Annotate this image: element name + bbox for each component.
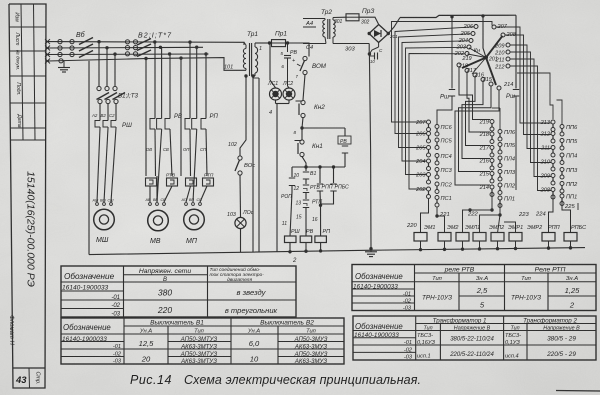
wire Tr2 secondary to fuse Pr3 (301)	[333, 17, 346, 25]
junction node 8	[293, 126, 303, 135]
table 4 grid (трансформаторы)	[353, 316, 596, 360]
table 1 grid (напряжение сети)	[61, 266, 296, 317]
switch Kn contact 207	[492, 24, 508, 30]
contact PS-switch 203	[415, 173, 430, 185]
wires fan to PS-switch contacts (left bundle)	[392, 22, 493, 190]
label node 16	[312, 217, 318, 223]
contact PS-switch 205	[415, 146, 430, 158]
wire 225	[564, 203, 578, 210]
contact selector 216	[479, 159, 494, 171]
wire lighting feeder (102 chain)	[240, 76, 246, 156]
rectifier RV cell (5-6)	[280, 43, 297, 86]
strip label № докум.	[16, 50, 21, 70]
wire bus to fan common	[452, 16, 486, 58]
switch Kn contact 215	[482, 77, 493, 86]
contact selector 211	[540, 146, 555, 158]
switch Kn common node 201	[474, 48, 498, 63]
wire rect to lamp LS2	[288, 86, 290, 88]
wires RV contacts down	[155, 130, 172, 202]
table 3 designation rows	[353, 284, 412, 312]
table 3 header Обозначение	[355, 272, 403, 281]
switch Kn contact 209	[494, 43, 510, 50]
label node 11	[282, 221, 287, 227]
label 302	[361, 20, 370, 26]
contact ПС2	[435, 182, 453, 194]
transformer Tr2 label	[321, 9, 332, 16]
signal lamp LS2	[283, 88, 295, 100]
contact 13/RTP	[295, 200, 322, 237]
motor MSh terminals	[92, 199, 115, 206]
wires RP contacts down	[190, 130, 207, 202]
wire Kn1 to ladder top	[302, 157, 306, 167]
switch B2 blades	[137, 39, 151, 57]
fuse Pr1	[272, 31, 288, 47]
strip cell divider rows	[9, 27, 46, 388]
contact 10/B1	[293, 167, 316, 184]
table 1 value 380	[158, 288, 172, 298]
wire MV feeder 4	[169, 54, 171, 117]
table 4 voltage 2	[546, 336, 576, 359]
switch Kn contact 208	[501, 32, 517, 38]
contact ROP (RSh rung)	[281, 178, 295, 236]
transformer Tr1 core	[250, 43, 252, 76]
strip margin label Формат 11	[8, 315, 14, 345]
table 4 type 1	[417, 333, 436, 360]
ladder top rail	[292, 165, 345, 177]
caption Рис.14	[130, 373, 172, 387]
connector contacts phase B	[58, 46, 74, 50]
table 3 header реле РТВ	[444, 267, 475, 274]
relay coil RP	[315, 236, 327, 243]
wire MP feeder 4	[205, 54, 207, 117]
wire 220	[406, 199, 429, 233]
wire MP feeder 2	[189, 42, 191, 117]
transformer Tr1 secondary winding	[255, 43, 258, 76]
contact ПП2	[560, 182, 578, 194]
table 2 header Выключатель В1	[150, 320, 204, 327]
table 3 value 2	[569, 301, 575, 310]
label node 101	[224, 65, 233, 71]
wire A4 stub	[303, 18, 325, 20]
switch Kn contact 218	[458, 64, 469, 73]
table 3 value 5	[480, 301, 485, 310]
table 3 subheaders	[432, 276, 578, 282]
table 3 value 2,5	[476, 286, 488, 295]
contact ПС6	[435, 125, 453, 137]
switch Kn contact 219	[457, 56, 472, 67]
relay/solenoid coil ЭМЛ1	[456, 225, 480, 241]
drawing frame: left title strip outline	[9, 4, 46, 388]
wire MV feeder 2	[154, 42, 156, 117]
table 2 designation rows	[62, 336, 122, 365]
node 1 label	[259, 46, 262, 52]
contact selector 209	[540, 174, 555, 186]
switch VOs	[235, 156, 255, 175]
motor MSh	[94, 209, 115, 230]
label B6	[76, 31, 86, 39]
label RP (contactor)	[210, 114, 219, 120]
switch B1 blades	[97, 93, 126, 100]
motor MP terminals	[181, 198, 203, 205]
labels A2 B2 C2	[91, 113, 115, 118]
contact selector 210	[540, 160, 555, 172]
contact selector 213	[540, 120, 555, 132]
switch Kn contact 202	[454, 51, 469, 57]
junction dots after B6	[97, 40, 116, 56]
junction dot bus-fan drop	[481, 14, 484, 17]
switch Kn contact 204	[458, 38, 473, 44]
wire 223 (selector bottom to EMR2)	[518, 192, 553, 234]
top DC bus	[400, 15, 516, 17]
label 201 (dc bus node)	[389, 34, 398, 39]
labels OV SV	[146, 147, 169, 152]
bridge terminal dots	[368, 32, 390, 35]
contact ПЛ6	[498, 130, 516, 142]
relay/solenoid coil РПП	[542, 225, 560, 241]
contactor RV main contacts	[150, 117, 170, 130]
transformer Tr1 label	[247, 31, 258, 38]
label B1;I;T3	[118, 93, 139, 100]
strip page cell 43	[15, 375, 27, 386]
pushbutton Kn1	[295, 128, 324, 157]
table 4 header Трансформатор 1	[433, 318, 487, 325]
table 4 voltage 1	[449, 337, 494, 359]
switch Kn contact 211	[495, 57, 510, 64]
wire 303 (Tr2 bottom to bridge)	[333, 44, 369, 54]
switch Kn blades	[462, 36, 503, 85]
table 2 value 12,5	[139, 339, 155, 348]
table 1 value в треугольник	[225, 306, 278, 315]
lamp 103 LOs	[227, 210, 254, 229]
table 2 value 10	[250, 355, 259, 364]
contact ПП3	[560, 168, 578, 180]
coil labels RSh RV RP	[291, 229, 330, 235]
table 1 designation rows	[62, 285, 121, 318]
wires thermal to motor MV	[150, 176, 172, 202]
contact selector 214	[479, 185, 494, 197]
table 2 value 6,0	[249, 339, 260, 348]
switch Kn contact 206	[463, 24, 478, 30]
coil bottom stubs to bus	[419, 242, 572, 252]
transformer Tr2 core	[328, 19, 330, 39]
table 2 grid (выключатели)	[61, 318, 344, 364]
label MV	[150, 238, 161, 245]
contact selector 218	[479, 132, 494, 144]
contact ПС3	[435, 168, 453, 180]
connector contact neutral	[59, 59, 63, 63]
contact selector 208	[540, 188, 555, 200]
contact ПП6	[560, 125, 578, 137]
label MP	[186, 238, 198, 245]
switch Kn contact 210	[494, 50, 510, 57]
contact ПС1	[435, 196, 452, 208]
strip label Изм	[14, 12, 20, 22]
label RV (contactor)	[174, 114, 182, 120]
table 3 grid (реле)	[352, 265, 596, 311]
wire MP feeder 3	[196, 47, 198, 117]
wire B1 feeders	[99, 42, 115, 87]
label RTV	[166, 173, 176, 179]
contact PS-switch 202	[415, 187, 430, 199]
junction dot fuse right	[286, 41, 289, 44]
capacitor C	[369, 48, 383, 64]
input terminal marks	[45, 39, 50, 63]
switch Kn contact 205	[460, 31, 475, 37]
relay coil RV	[300, 236, 312, 243]
switch Kn contact 203	[456, 45, 471, 51]
contact ПС5	[435, 138, 453, 150]
strip document number 15140(16(25)-00.000 РЭ	[25, 171, 37, 287]
wire PL bottom to EML2/EMR1	[480, 200, 502, 233]
contact ПП1	[560, 194, 577, 206]
table 1 header Напряжен. сети	[139, 268, 191, 283]
relay/solenoid coil ЭМР2	[509, 225, 542, 241]
bottom control bus	[89, 248, 585, 255]
auxiliary contact RSh (left)	[437, 22, 455, 125]
contact selector 217	[479, 146, 494, 158]
junction dots after B2	[144, 40, 207, 60]
wire phase B bus	[46, 46, 203, 49]
wire 213 feeder	[517, 73, 553, 119]
wire fuse to VOM drop	[288, 43, 310, 57]
contact ПП5	[560, 139, 578, 151]
label B2;I;T*7	[138, 33, 172, 40]
wires RSh to motor MSh	[97, 128, 116, 202]
wire Tr1 secondary to fuse Pr1	[255, 42, 270, 44]
switch Kn contact 216	[474, 73, 485, 82]
auxiliary contact RSh (right)	[506, 15, 519, 190]
label RSh	[122, 122, 132, 129]
wire MP feeder 1	[180, 58, 182, 176]
transformer Tr2 secondary winding	[333, 18, 335, 44]
motor MP	[184, 209, 205, 230]
label LS2	[282, 81, 293, 87]
wire Kn2 to node 8	[302, 118, 303, 128]
transformer Tr2 primary winding	[323, 19, 326, 44]
thermal relay RTP heaters	[186, 178, 214, 186]
label 102	[228, 142, 237, 148]
relay contact RV (time)	[338, 136, 351, 167]
relay coil RSh	[285, 236, 297, 243]
wire node8 to RV contact branch	[302, 128, 345, 136]
table 2 subheaders	[139, 329, 317, 335]
caption Схема электрическая принципиальная	[184, 373, 421, 387]
table 4 header Трансформатор 2	[523, 318, 577, 325]
contact RPP (parallel rung)	[317, 167, 333, 206]
switch Kn contact 214	[497, 82, 513, 90]
table 4 header Обозначение	[355, 322, 403, 331]
table 2 types B1	[180, 337, 218, 365]
table 4 designation rows	[354, 332, 413, 361]
wire bridge to top bus	[388, 18, 400, 34]
wire PL column feeder	[492, 108, 500, 130]
table 1 value в звезду	[237, 288, 267, 297]
relay/solenoid coil ЭМЛ2	[473, 225, 504, 241]
thermal relay RTV heaters	[146, 178, 178, 186]
signal lamp LS1	[270, 88, 282, 100]
wire phase A bus	[46, 42, 244, 45]
contact ПЛ5	[498, 143, 516, 155]
contact ПЛ3	[498, 170, 516, 182]
wire 221 (PS bottom to EM2)	[435, 207, 449, 233]
switch B6 blades	[79, 38, 93, 58]
wire VOM to Kn2	[303, 75, 305, 100]
relay/solenoid coil ЭМ2	[438, 225, 458, 241]
wire EMR1 feeder	[504, 222, 516, 233]
switch Kn fan spokes	[468, 48, 487, 74]
table 1 header Обозначение	[64, 272, 115, 281]
wire phase C bus	[46, 53, 209, 56]
pushbutton Kn2	[296, 100, 326, 117]
wire VOs to lamp LOs	[239, 175, 242, 217]
wire node1 to lamp LS1	[270, 45, 276, 88]
table 3 value ТРН-10УЗ (РТВ)	[422, 295, 452, 302]
wire fuse to bridge	[359, 17, 379, 24]
connector contacts phase C	[58, 52, 74, 56]
strip label Дата	[16, 113, 22, 127]
strip page label Стр.	[35, 371, 41, 384]
wire C4 stub	[303, 43, 326, 45]
wire MV feeder 3	[161, 47, 163, 117]
junction dot RP rung	[319, 204, 322, 236]
contact ПС4	[435, 154, 452, 166]
wire lighting return	[252, 76, 254, 252]
wires fan to selector contacts (middle bundle)	[455, 67, 499, 185]
wire control return (left drop)	[88, 61, 90, 255]
wire DC minus down to ground	[369, 54, 371, 248]
contact PS-switch 204	[415, 159, 430, 171]
strip inner vertical dividers	[21, 4, 35, 140]
wires thermal to motor MP	[186, 186, 207, 202]
switch Kn contact 212	[494, 64, 510, 71]
table 4 subheaders	[423, 326, 580, 332]
wire PP column feeder	[557, 100, 563, 125]
wire 222 (selector bottom to EML1)	[463, 189, 494, 233]
label node 15	[296, 215, 302, 221]
coil bottom stubs	[288, 243, 322, 254]
table 4 type 2	[505, 333, 521, 360]
fuse Pr3	[346, 8, 374, 21]
relay/solenoid coil ЭМР1	[491, 225, 523, 241]
wires to RSh contacts	[100, 104, 116, 120]
junction dot bus-RSh drop	[450, 15, 453, 18]
connector contacts phase A	[58, 40, 74, 44]
table 3 header Реле РТП	[535, 267, 566, 274]
sheet edge line (bottom right)	[556, 390, 600, 393]
contact RPBS (parallel rung)	[321, 167, 349, 204]
wire Tr1 primary bottom junction	[244, 74, 255, 77]
relay/solenoid coil РПБС	[564, 225, 586, 241]
contact 12/RTV	[293, 185, 320, 199]
motor MV terminals	[145, 198, 167, 205]
table 1 header Тип соединений	[210, 266, 265, 283]
switch B1 lower contacts	[98, 99, 118, 103]
contact PS-switch 207	[415, 120, 430, 132]
ground (input)	[58, 61, 70, 72]
contact ПЛ2	[498, 183, 516, 195]
table 2 header Выключатель В2	[260, 320, 314, 327]
strip label Лист	[14, 32, 20, 46]
contact ПП4	[560, 153, 577, 165]
junction dot fuse left	[268, 41, 271, 44]
contactor RP main contacts	[185, 117, 206, 130]
switch B2 contacts	[125, 40, 137, 56]
relay/solenoid coil ЭМ1	[414, 225, 435, 241]
wire spare return	[253, 78, 259, 252]
wire MV feeder 1	[145, 59, 147, 177]
switch B1 upper contacts	[97, 86, 117, 90]
contact PS-switch 206	[415, 132, 430, 144]
labels OP SP	[183, 147, 207, 152]
table 2 value 20	[141, 355, 151, 364]
ground (control circuit)	[365, 247, 377, 257]
label C4	[306, 45, 313, 51]
switch VOM	[296, 56, 327, 79]
table 2 header Обозначение	[63, 323, 111, 332]
wire lamp to bus	[240, 229, 242, 253]
junction dot below bridge	[368, 43, 379, 56]
wire phase D (control feed) with step to node 101	[48, 58, 246, 71]
label node 4	[269, 110, 272, 116]
wire 224 (PP bottom to RPP)	[535, 198, 571, 233]
label MSh	[96, 237, 109, 244]
rectifier bridge Pr3 output	[369, 25, 389, 43]
table 3 value 1,25	[565, 286, 581, 295]
label LS1	[267, 81, 278, 87]
contact ПЛ1	[498, 196, 515, 208]
contact selector 219	[479, 120, 494, 132]
contact ПЛ4	[498, 156, 515, 168]
contact selector 212	[540, 132, 555, 144]
transformer Tr1 primary winding	[243, 42, 246, 70]
motor MV	[148, 210, 169, 231]
wire lamps bottom to node 4	[276, 100, 290, 252]
table 2 types B2	[294, 337, 328, 365]
wires fan to selector contacts (right bundle)	[496, 27, 551, 191]
label node 2	[292, 258, 297, 264]
contactor RSh main contacts	[95, 119, 116, 128]
label A4	[303, 21, 316, 27]
contact selector 215	[479, 172, 494, 184]
table 1 value 220	[157, 305, 172, 315]
switch Kn contact 217	[466, 68, 477, 77]
table 3 value ТРН-10УЗ (РТП)	[511, 295, 541, 302]
label RTP	[204, 173, 214, 179]
strip label Подп.	[15, 82, 21, 95]
